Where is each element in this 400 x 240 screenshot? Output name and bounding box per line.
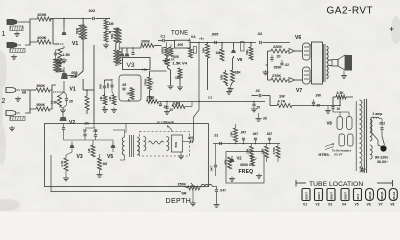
svg-text:1M: 1M	[87, 148, 91, 153]
ground osc b	[256, 174, 262, 179]
wire mid rail	[159, 101, 266, 103]
wire B plus vertical	[83, 45, 94, 124]
reverb driver transformer winding L	[122, 137, 124, 155]
ground jack3	[15, 97, 21, 102]
ground osc a	[229, 177, 235, 182]
label 2.2u	[208, 96, 213, 100]
tube V7 input	[289, 78, 295, 83]
svg-text:to × Reverb: to × Reverb	[157, 120, 174, 124]
resistor 500K b	[36, 103, 50, 111]
capacitor cathode 20uF	[54, 50, 60, 60]
node plus mark top right	[390, 27, 394, 31]
svg-text:GA2-RVT: GA2-RVT	[327, 6, 374, 17]
wire v5 links	[222, 43, 251, 87]
capacitor C .022	[88, 8, 97, 20]
svg-text:30-60~: 30-60~	[377, 160, 388, 164]
resistor 1M b	[108, 95, 116, 105]
wire speaker leads	[329, 60, 345, 74]
wire jack2 to R2	[25, 42, 37, 45]
svg-text:NR: NR	[182, 192, 187, 196]
resistor 1M trem a	[87, 145, 95, 157]
tube V2b plate	[230, 156, 235, 162]
capacitor .047 b	[252, 132, 258, 144]
svg-text:470K: 470K	[272, 146, 276, 154]
pot depth	[188, 183, 200, 190]
node input jack 2 label	[2, 98, 6, 105]
tube V6 input	[289, 49, 295, 54]
tube V2 label	[69, 120, 75, 126]
ground top of tone	[163, 58, 176, 64]
label 2W	[316, 94, 322, 98]
capacitor line .022	[379, 122, 386, 130]
capacitor 20 mid a	[165, 102, 173, 113]
svg-text:.047: .047	[240, 131, 246, 135]
svg-text:6BQ5: 6BQ5	[368, 191, 372, 199]
svg-text:.001: .001	[188, 136, 194, 140]
ground osc top	[256, 113, 262, 121]
tube socket V4	[341, 189, 349, 207]
tube V6 envelope	[303, 43, 311, 60]
capacitor .047 c	[266, 132, 272, 144]
tube V1b grid	[53, 81, 64, 92]
ground above V1b	[61, 58, 67, 63]
wire jacks2 common	[29, 90, 31, 113]
resistor 56K v5	[245, 47, 253, 60]
capacitor .047 a	[240, 131, 246, 144]
tube socket V2	[315, 189, 323, 207]
svg-text:6.8M: 6.8M	[173, 102, 180, 106]
svg-text:270K: 270K	[272, 74, 281, 78]
jack J3 tip	[6, 88, 20, 93]
svg-text:250K: 250K	[144, 78, 148, 86]
svg-text:V1: V1	[72, 41, 78, 47]
pot tone 500K	[161, 46, 173, 57]
capacitor .01 osc	[214, 134, 222, 146]
ground mid a	[164, 110, 170, 115]
label node A	[105, 31, 111, 35]
tube socket V8	[389, 189, 397, 207]
tremolo inner divider	[125, 124, 127, 134]
wire pi to tubes	[295, 51, 303, 80]
label .005 tone	[173, 55, 179, 59]
label NR	[182, 192, 187, 196]
tube V3 plates	[120, 48, 130, 57]
resistor 18K	[231, 70, 242, 82]
ground jack2	[11, 55, 17, 60]
resistor 56K low	[220, 72, 228, 84]
svg-text:.005: .005	[99, 84, 103, 90]
reverb output block	[172, 135, 183, 152]
wire ch2 bus	[83, 79, 94, 91]
tube V8 label	[327, 121, 333, 126]
svg-text:V4: V4	[342, 203, 346, 207]
tube socket V5	[354, 189, 362, 207]
svg-text:.005: .005	[106, 83, 110, 89]
wire V3 plate wires	[119, 46, 161, 55]
resistor 20K osc3	[261, 146, 269, 158]
svg-text:.02: .02	[255, 89, 260, 93]
capacitor tone box	[175, 40, 191, 48]
capacitor .005 bus	[211, 32, 218, 44]
label 1.5K V4	[173, 61, 188, 66]
ground cap depth	[214, 203, 220, 208]
svg-text:6CA4: 6CA4	[392, 191, 396, 199]
svg-text:V3: V3	[77, 154, 83, 160]
resistor 4.7K fb	[277, 104, 292, 108]
svg-text:V7: V7	[296, 88, 302, 94]
svg-text:250K: 250K	[178, 182, 187, 186]
ground tone b	[177, 85, 183, 90]
wire cathode2	[60, 92, 67, 108]
svg-text:V8: V8	[327, 121, 333, 126]
wire 250K stem	[149, 71, 151, 102]
resistor 56K mid	[202, 44, 210, 58]
freq box	[226, 152, 264, 184]
capacitor .005 vb	[106, 80, 113, 92]
svg-text:56K: 56K	[202, 47, 206, 53]
label heaters note	[332, 149, 351, 157]
resistor 4.7K trem	[60, 158, 68, 171]
jack J4 body	[10, 117, 25, 121]
reverb spring	[149, 141, 164, 144]
reverb tank dashed box	[140, 132, 190, 157]
svg-text:100K: 100K	[37, 12, 47, 17]
wire v5b	[112, 140, 114, 152]
ground speaker	[341, 74, 347, 79]
capacitor 10 filter	[331, 107, 340, 111]
output transformer box	[312, 42, 323, 84]
wire V8 plate	[333, 112, 349, 117]
output transformer core	[324, 44, 326, 82]
jack J2 body	[10, 49, 25, 53]
wire trem top	[64, 124, 114, 141]
wire R1 out	[51, 19, 53, 44]
resistor cathode2 1.5K	[51, 96, 62, 107]
svg-text:500K: 500K	[37, 84, 46, 88]
wire v3 cath	[105, 79, 115, 95]
resistor cathode 1.5K	[58, 49, 70, 60]
tube V4 label	[188, 35, 196, 42]
tube V2 plate	[60, 114, 67, 122]
capacitor 20 vol	[159, 102, 167, 109]
capacitor 20 ot	[312, 100, 320, 108]
resistor 1M c	[126, 88, 134, 100]
resistor 1M v4	[175, 68, 182, 80]
wire osc bus	[213, 143, 280, 145]
tube location bracket	[296, 180, 393, 187]
capacitor V2 out	[62, 124, 65, 141]
svg-text:V2: V2	[237, 156, 243, 161]
resistor grid leak	[104, 30, 108, 42]
power transformer core	[356, 99, 366, 173]
svg-text:DEPTH: DEPTH	[166, 198, 192, 205]
svg-text:100K: 100K	[37, 35, 47, 40]
svg-text:.047: .047	[266, 132, 272, 136]
ground cathode V1b	[60, 108, 66, 113]
label to reverb	[157, 120, 174, 124]
tube V1a grid	[56, 44, 64, 48]
jack J1 tip	[7, 20, 21, 25]
capacitor 20 mid b	[252, 102, 260, 110]
svg-text:.05: .05	[122, 83, 127, 87]
ground mid b	[251, 107, 257, 112]
wire box out	[142, 67, 167, 71]
svg-text:6C4: 6C4	[356, 194, 360, 200]
wire after cap	[96, 18, 111, 20]
resistor 1M grid	[104, 20, 114, 30]
svg-text:TONE: TONE	[171, 31, 188, 37]
wire after .02	[263, 42, 291, 44]
svg-text:V1: V1	[303, 203, 307, 207]
wire transformer leads	[113, 130, 125, 160]
svg-text:250K: 250K	[274, 66, 283, 70]
svg-text:1W: 1W	[279, 95, 285, 99]
ground tone a	[168, 84, 174, 89]
svg-text:4.7K: 4.7K	[60, 160, 64, 167]
capacitor .047 depth	[215, 189, 226, 193]
capacitor .02 bus	[257, 32, 262, 44]
pot freq 3000	[251, 155, 257, 166]
svg-text:2: 2	[2, 98, 6, 105]
svg-text:56K: 56K	[220, 74, 224, 80]
power transformer secondary	[360, 100, 362, 172]
label 20 pi	[277, 55, 281, 59]
svg-text:220K: 220K	[273, 45, 282, 49]
reverb coil out	[167, 137, 169, 151]
svg-text:.05: .05	[93, 129, 98, 133]
label 250K pi	[274, 66, 283, 70]
tube socket V3	[327, 189, 335, 207]
wire pi wires	[266, 51, 290, 80]
svg-text:20: 20	[277, 55, 281, 59]
ground pi	[263, 70, 269, 75]
svg-text:V2: V2	[69, 120, 75, 126]
capacitor .005 ch1	[71, 71, 78, 77]
power transformer primary	[370, 119, 372, 159]
capacitor pi .02	[280, 60, 289, 67]
svg-text:50K: 50K	[174, 141, 178, 147]
svg-text:50K: 50K	[76, 27, 80, 34]
wire cap depth	[212, 186, 217, 202]
svg-text:1M: 1M	[126, 92, 131, 96]
wire jack1 to R1	[21, 19, 37, 22]
svg-text:56K: 56K	[110, 33, 114, 39]
svg-text:1M: 1M	[103, 162, 108, 166]
wire reverb feed arrow	[167, 126, 172, 132]
svg-text:V5: V5	[355, 203, 359, 207]
capacitor .001 rev	[188, 136, 194, 143]
reverb coil in	[144, 137, 146, 151]
wire 50K down	[64, 39, 83, 76]
tube V8 rectifier	[337, 117, 352, 130]
label title GA2-RVT	[327, 6, 374, 17]
resistor R2 100K	[37, 35, 51, 44]
coupling can box	[119, 75, 141, 101]
wire OT wires	[310, 45, 312, 81]
reverb driver transformer core	[130, 135, 134, 157]
svg-text:1.5K: 1.5K	[51, 101, 59, 105]
resistor grid stopper pair V1b	[54, 59, 62, 72]
label .005 ch2	[70, 75, 77, 79]
svg-text:2W: 2W	[316, 94, 322, 98]
resistor 20K osc	[230, 128, 238, 142]
tube V7 envelope	[303, 67, 311, 84]
capacitor V4 small box	[193, 47, 196, 54]
svg-text:1: 1	[2, 31, 6, 38]
svg-text:500K: 500K	[161, 46, 165, 54]
wire 1M node stem	[106, 19, 110, 21]
resistor V3 grid 56K	[110, 28, 121, 43]
capacitor C1	[161, 35, 166, 43]
wire trem v5	[93, 140, 100, 173]
wire osc drops	[236, 124, 279, 162]
svg-text:.01: .01	[214, 134, 219, 138]
svg-text:1M: 1M	[109, 22, 114, 26]
tremolo box outline	[45, 124, 209, 187]
label TUBE LOCATION	[309, 181, 363, 188]
svg-text:V5: V5	[237, 57, 243, 62]
resistor 1M a	[99, 95, 107, 105]
svg-text:.047: .047	[220, 189, 227, 193]
label .05	[122, 83, 127, 90]
output transformer primary	[327, 46, 329, 79]
label 3000 C1	[240, 163, 254, 167]
svg-text:.005: .005	[173, 55, 179, 59]
svg-text:20: 20	[69, 100, 73, 104]
tube V3b label	[77, 154, 83, 160]
wire fb	[252, 96, 278, 106]
tube V7 label	[296, 88, 302, 94]
label HTRS	[319, 153, 330, 157]
wire cathode	[60, 48, 64, 49]
svg-text:V3: V3	[328, 203, 332, 207]
svg-text:6EU7: 6EU7	[317, 192, 321, 200]
node input jack 1 label	[2, 31, 6, 38]
svg-text:V2: V2	[316, 203, 320, 207]
tube V5a plate	[231, 42, 244, 63]
coil depth	[201, 184, 212, 186]
label TONE	[171, 31, 188, 37]
svg-text:V3: V3	[127, 62, 135, 69]
resistor 250K vol vertical	[144, 77, 154, 90]
resistor 50K vertical pair	[76, 25, 87, 39]
svg-text:V5: V5	[107, 154, 113, 160]
tube V3 box	[123, 58, 151, 70]
tube socket V6	[366, 189, 374, 207]
wire plug leads	[378, 136, 385, 147]
svg-text:4.3u: 4.3u	[142, 67, 148, 71]
resistor 3.3K filter	[336, 91, 346, 99]
ground cathode V1a	[57, 61, 63, 66]
wire pot stubs	[184, 186, 201, 188]
tube V6 label	[295, 35, 301, 41]
ground filter	[325, 109, 331, 114]
svg-text:56K: 56K	[245, 49, 249, 55]
resistor 470K osc	[272, 146, 280, 158]
resistor V3 load pair	[114, 50, 121, 66]
svg-text:V1-V7: V1-V7	[334, 153, 343, 157]
wire filter	[328, 97, 353, 112]
resistor V4 plate	[189, 48, 193, 58]
svg-text:C1: C1	[161, 35, 166, 39]
capacitor cathode2 20uF	[65, 95, 73, 105]
tube V1a label	[72, 41, 78, 47]
svg-text:V8: V8	[390, 203, 394, 207]
ground 1M a	[102, 108, 108, 113]
tube V1b plate	[61, 67, 68, 79]
pot volume 250K	[147, 96, 159, 104]
ground trem a	[63, 176, 69, 181]
wire jack3 to R	[21, 89, 36, 91]
svg-text:6EU7: 6EU7	[344, 192, 348, 200]
tube V1a plate	[62, 29, 67, 35]
resistor R1 100K	[37, 12, 51, 21]
resistor 500K a	[36, 84, 50, 92]
ground 1M b	[111, 108, 117, 113]
label 20 osc	[263, 117, 267, 121]
label 68K	[22, 91, 26, 95]
label 250K pot2	[147, 95, 156, 99]
svg-text:HTRS.: HTRS.	[319, 153, 330, 157]
capacitor .005 va	[99, 82, 106, 93]
wire reverb out	[181, 140, 194, 154]
svg-text:.047: .047	[252, 132, 258, 136]
ground reverb	[178, 154, 184, 159]
jack J2 tip	[7, 43, 21, 48]
wire tone wires	[158, 41, 199, 49]
svg-text:1M: 1M	[108, 96, 112, 101]
resistor 270K	[271, 74, 287, 82]
resistor 1M v5	[216, 49, 225, 61]
label 10 trem	[83, 129, 87, 136]
svg-text:47K: 47K	[224, 159, 228, 165]
wire bus tone out	[198, 42, 256, 44]
svg-text:.022: .022	[88, 8, 97, 13]
wire tone mid	[167, 57, 181, 86]
resistor 2K right	[85, 96, 90, 126]
label 80-120v	[375, 155, 388, 159]
ground trem b	[97, 173, 103, 178]
capacitor .047 left	[210, 144, 217, 177]
heater arrows	[325, 144, 334, 150]
fuse 2 amp	[371, 112, 382, 119]
tube V3 label	[127, 62, 135, 69]
label +8v	[199, 37, 204, 41]
svg-text:1M: 1M	[99, 96, 103, 101]
label 20	[60, 69, 64, 73]
ground transformer	[360, 167, 366, 172]
tube socket V7	[378, 189, 386, 207]
svg-text:3.3K: 3.3K	[337, 91, 345, 95]
svg-text:1.5K V4: 1.5K V4	[173, 61, 188, 66]
svg-text:20: 20	[257, 106, 261, 110]
svg-text:20K: 20K	[230, 131, 234, 137]
tremolo box outer line	[51, 155, 181, 192]
capacitor .02 fb	[255, 89, 261, 97]
svg-text:.005: .005	[211, 32, 218, 36]
svg-text:FREQ: FREQ	[239, 169, 254, 175]
label DEPTH	[166, 198, 192, 205]
ground mid c	[226, 87, 232, 94]
tube V2b label	[237, 156, 243, 161]
wire plate V1a up	[50, 19, 64, 29]
svg-text:+8v: +8v	[199, 37, 204, 41]
wire jack4 to R	[25, 109, 36, 113]
wire grid V1a	[53, 43, 59, 45]
svg-text:20: 20	[263, 117, 267, 121]
label node A a	[103, 106, 106, 110]
tube V5b plate	[111, 142, 116, 148]
